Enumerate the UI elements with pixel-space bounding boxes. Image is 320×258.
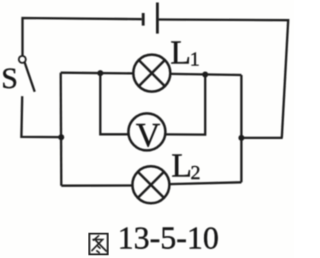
wire node B to right rail: [241, 137, 282, 139]
wire top-left: [23, 18, 142, 56]
switch S blade: [25, 62, 35, 91]
wire row3 right: [169, 182, 241, 184]
wire row1 left: [61, 72, 134, 75]
wire row3 left: [61, 184, 132, 186]
lamp L1: [133, 55, 170, 92]
wire voltmeter branch right: [166, 75, 206, 135]
wire right branch vertical: [240, 75, 242, 182]
voltmeter U1 circle: [128, 113, 165, 150]
lamp L2: [132, 166, 169, 203]
svg-text:S: S: [1, 62, 18, 95]
svg-text:1: 1: [190, 49, 200, 71]
wire left-lower: [21, 96, 61, 137]
svg-text:13-5-10: 13-5-10: [118, 220, 219, 256]
junction node left: [58, 134, 64, 140]
caption character 图 (drawn): [89, 234, 107, 255]
junction node a (row1 / voltmeter left): [97, 70, 103, 76]
svg-text:L: L: [170, 35, 191, 72]
svg-text:V: V: [136, 117, 161, 154]
switch S pivot circle: [19, 56, 26, 63]
wire top-right: [159, 20, 289, 138]
svg-text:2: 2: [191, 162, 201, 184]
junction node b (row1 / voltmeter right): [202, 72, 208, 78]
wire voltmeter branch left: [100, 73, 128, 134]
battery B positive plate: [156, 3, 159, 34]
svg-text:L: L: [171, 148, 192, 185]
wire row1 right: [170, 74, 241, 75]
battery B negative plate: [142, 13, 145, 26]
wire left branch vertical: [60, 73, 63, 186]
junction node B: [238, 135, 244, 141]
